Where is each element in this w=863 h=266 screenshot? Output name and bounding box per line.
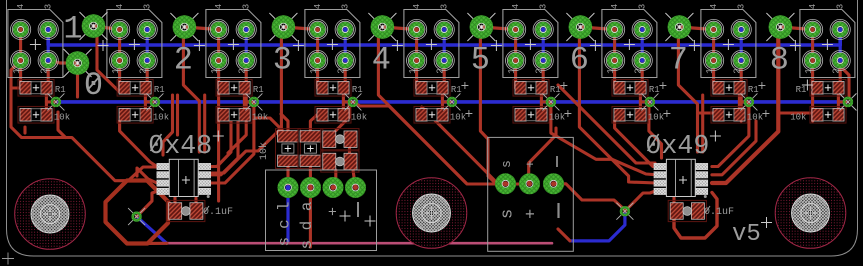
resistor pullup 1 [276, 129, 301, 169]
wire [780, 27, 812, 30]
wire [137, 168, 157, 183]
svg-text:4: 4 [511, 4, 521, 9]
wire [570, 212, 625, 241]
svg-text:6: 6 [570, 42, 589, 79]
wire blue vertical [839, 30, 842, 61]
svg-text:1: 1 [63, 11, 82, 48]
wire [46, 92, 56, 102]
wire blue vertical [641, 30, 644, 61]
resistor 10k ch5 [513, 106, 549, 123]
connector CH7 [701, 4, 756, 78]
svg-text:4: 4 [214, 4, 224, 9]
wire [118, 30, 121, 89]
wire [811, 92, 814, 121]
wire [738, 102, 741, 112]
wire blue vertical [146, 30, 149, 61]
wire [50, 61, 78, 64]
resistor R1 ch3 [315, 79, 351, 96]
wire [144, 102, 147, 112]
wire [382, 27, 416, 30]
svg-text:sda: sda [298, 201, 316, 249]
wire [167, 242, 552, 245]
svg-text:10k: 10k [54, 113, 70, 123]
label minus bottom [557, 203, 559, 218]
wire [244, 92, 254, 102]
wire [558, 85, 655, 163]
wire [698, 111, 719, 114]
via bottom left [128, 208, 145, 225]
wire [336, 104, 349, 131]
wire [176, 95, 179, 135]
pad 0 [64, 49, 92, 77]
wire [839, 61, 842, 89]
via ch8 [839, 93, 856, 110]
wire [778, 111, 810, 114]
wire [674, 193, 717, 239]
wire [310, 114, 318, 131]
svg-text:0x49: 0x49 [645, 132, 709, 162]
pad 4 [368, 13, 396, 41]
wire [641, 61, 644, 89]
wire [120, 121, 157, 167]
origin marker [2, 253, 14, 265]
wire [19, 30, 22, 89]
resistor R1 ch5 [513, 79, 549, 96]
wire [712, 104, 749, 167]
resistor 10k ch3 [315, 106, 351, 123]
wire blue vertical [443, 30, 446, 61]
svg-text:R1: R1 [796, 85, 807, 95]
svg-text:+: + [326, 207, 343, 216]
wire [514, 30, 517, 89]
svg-text:10k: 10k [747, 113, 763, 123]
wire [679, 27, 713, 30]
via ch3 [344, 93, 361, 110]
svg-text:3: 3 [736, 4, 746, 9]
svg-text:3: 3 [241, 4, 251, 9]
svg-text:3: 3 [340, 4, 350, 9]
svg-text:4: 4 [412, 4, 422, 9]
via ch7 [740, 93, 757, 110]
wire [184, 27, 218, 30]
wire [441, 102, 444, 112]
wire [309, 165, 312, 247]
mounting hole left [15, 179, 86, 250]
op-amp U 0x48 [157, 159, 211, 198]
resistor 10k ch6 [612, 106, 648, 123]
polygon GND pour outline [106, 181, 169, 244]
wire [348, 146, 351, 154]
wire [615, 121, 657, 167]
pad 5 [467, 13, 495, 41]
wire [353, 170, 356, 188]
wire [334, 170, 337, 188]
wire [97, 33, 120, 92]
wire [281, 114, 288, 131]
resistor R1 ch7 [711, 79, 747, 96]
pad 8 [766, 13, 794, 41]
wire [212, 33, 281, 173]
svg-text:4: 4 [808, 4, 818, 9]
wire [283, 27, 317, 30]
connector sensor [488, 137, 574, 251]
resistor 10k ch2 [216, 106, 252, 123]
wire [194, 198, 197, 203]
svg-text:5: 5 [471, 42, 490, 79]
resistor 10k ch8 [810, 106, 846, 123]
wire [740, 61, 743, 89]
resistor R1 ch4 [414, 79, 450, 96]
svg-text:3: 3 [439, 4, 449, 9]
wire [343, 92, 353, 102]
via ch2 [245, 93, 262, 110]
wire [415, 30, 418, 89]
svg-text:4: 4 [709, 4, 719, 9]
svg-text:v5: v5 [732, 221, 761, 248]
resistor 10k ch0 [18, 106, 54, 123]
via bottom right [616, 203, 633, 220]
wire [529, 128, 556, 184]
wire [76, 63, 79, 97]
resistor R1 ch8 [810, 79, 846, 96]
wire [558, 229, 570, 241]
wire [211, 121, 238, 175]
wire [541, 92, 551, 102]
wire [342, 102, 345, 112]
wire [183, 33, 199, 152]
resistor 10k ch1 [117, 106, 153, 123]
connector CH6 [602, 4, 657, 78]
svg-text:4: 4 [610, 4, 620, 9]
svg-text:10k: 10k [648, 113, 664, 123]
wire [739, 92, 749, 102]
svg-text:+: + [523, 209, 542, 219]
connector CH2 [206, 4, 261, 78]
connector CH0 [8, 4, 63, 78]
wire [94, 26, 120, 30]
net SDA bottom trace [48, 30, 840, 46]
wire [481, 27, 515, 30]
svg-text:3: 3 [273, 42, 292, 79]
wire [712, 121, 756, 175]
op-amp U 0x49 [654, 159, 708, 198]
wire [211, 121, 231, 167]
svg-text:4: 4 [115, 4, 125, 9]
connector CH3 [305, 4, 360, 78]
wire [217, 30, 220, 89]
wire blue vertical [344, 30, 347, 61]
wire [168, 202, 175, 209]
wire [701, 95, 704, 152]
wire [344, 61, 347, 89]
svg-text:8: 8 [770, 42, 789, 79]
wire [554, 184, 625, 210]
wire blue vertical [47, 30, 50, 61]
svg-text:4: 4 [313, 4, 323, 9]
wire [580, 27, 614, 30]
connector CH1 [107, 4, 162, 78]
wire [740, 92, 743, 121]
wire [145, 92, 155, 102]
svg-text:10k: 10k [450, 113, 466, 123]
svg-text:s: s [499, 160, 514, 168]
wire [173, 197, 176, 203]
mounting hole mid [396, 178, 467, 249]
svg-text:s: s [499, 209, 518, 219]
wire [255, 118, 282, 130]
wire [672, 197, 675, 203]
resistor R1 ch2 [216, 79, 252, 96]
connector I2C [266, 170, 377, 251]
wire [442, 92, 452, 102]
via ch0 [47, 93, 64, 110]
wire blue vertical [245, 30, 248, 61]
capacitor addr 1 [321, 129, 359, 150]
wire [579, 33, 656, 183]
wire [480, 33, 505, 184]
wire [11, 61, 158, 181]
svg-text:scl: scl [276, 202, 294, 247]
wire [243, 102, 246, 112]
pad 1 [80, 12, 108, 40]
via ch6 [641, 93, 658, 110]
wire blue scl drop [286, 188, 289, 244]
svg-text:10k: 10k [153, 113, 169, 123]
wire [23, 127, 26, 133]
wire [211, 104, 254, 183]
resistor R1 ch0 [18, 79, 54, 96]
svg-text:10k: 10k [258, 142, 270, 160]
wire [353, 102, 520, 184]
wire [11, 86, 20, 89]
wire [316, 30, 319, 89]
wire [540, 102, 543, 112]
connector CH5 [503, 4, 558, 78]
wire [422, 107, 506, 184]
capacitor C2 0.1uF [668, 200, 706, 221]
net SCL bottom trace [56, 100, 848, 104]
pad 7 [665, 13, 693, 41]
wire [649, 102, 662, 158]
pad 3 [269, 13, 297, 41]
svg-text:4: 4 [16, 4, 26, 9]
resistor 10k ch4 [414, 106, 450, 123]
wire [217, 92, 220, 201]
wire [640, 92, 650, 102]
wire [47, 61, 50, 89]
via ch1 [146, 93, 163, 110]
via ch4 [443, 93, 460, 110]
svg-text:7: 7 [669, 42, 688, 79]
wire [45, 102, 48, 112]
svg-text:3: 3 [538, 4, 548, 9]
wire [58, 112, 66, 138]
wire blue vertical [542, 30, 545, 61]
wire [712, 30, 715, 89]
wire [838, 92, 848, 102]
wire [811, 30, 814, 89]
capacitor C1 0.1uF [167, 200, 205, 221]
wire [837, 102, 840, 112]
wire [203, 95, 206, 152]
resistor pullup 2 [298, 129, 323, 169]
svg-text:0x48: 0x48 [148, 132, 212, 162]
wire [163, 95, 173, 155]
wire [613, 30, 616, 89]
wire [148, 242, 168, 245]
wire [625, 191, 654, 211]
svg-text:10k: 10k [252, 113, 268, 123]
svg-text:+: + [523, 160, 538, 168]
wire [712, 33, 778, 183]
svg-text:3: 3 [835, 4, 845, 9]
capacitor addr 2 [321, 151, 359, 172]
svg-text:3: 3 [142, 4, 152, 9]
label minus [357, 202, 359, 217]
svg-text:2: 2 [174, 42, 193, 79]
wire [245, 61, 248, 89]
wire blue vertical [740, 30, 743, 61]
wire [542, 61, 545, 89]
connector CH4 [404, 4, 459, 78]
svg-text:10k: 10k [790, 113, 806, 123]
label minus top [556, 156, 558, 167]
svg-text:0: 0 [84, 67, 103, 104]
wire [286, 165, 289, 188]
svg-text:4: 4 [372, 42, 391, 79]
connector CH8 [800, 4, 855, 78]
pad 6 [566, 13, 594, 41]
wire [228, 92, 246, 153]
svg-text:3: 3 [637, 4, 647, 9]
wire [137, 191, 157, 216]
wire [678, 33, 697, 152]
wire [146, 61, 149, 89]
mounting hole right [775, 178, 846, 249]
wire [639, 102, 642, 112]
resistor R1 ch1 [117, 79, 153, 96]
via ch5 [542, 93, 559, 110]
resistor R1 ch6 [612, 79, 648, 96]
via ch8 [839, 93, 856, 110]
wire [443, 61, 446, 89]
wire [551, 102, 657, 175]
svg-text:3: 3 [43, 4, 53, 9]
wire [835, 61, 849, 98]
svg-text:10k: 10k [549, 113, 565, 123]
wire [137, 217, 167, 244]
resistor 10k ch7 [711, 106, 747, 123]
pad 2 [170, 13, 198, 41]
wire [378, 33, 466, 183]
svg-text:10k: 10k [351, 113, 367, 123]
